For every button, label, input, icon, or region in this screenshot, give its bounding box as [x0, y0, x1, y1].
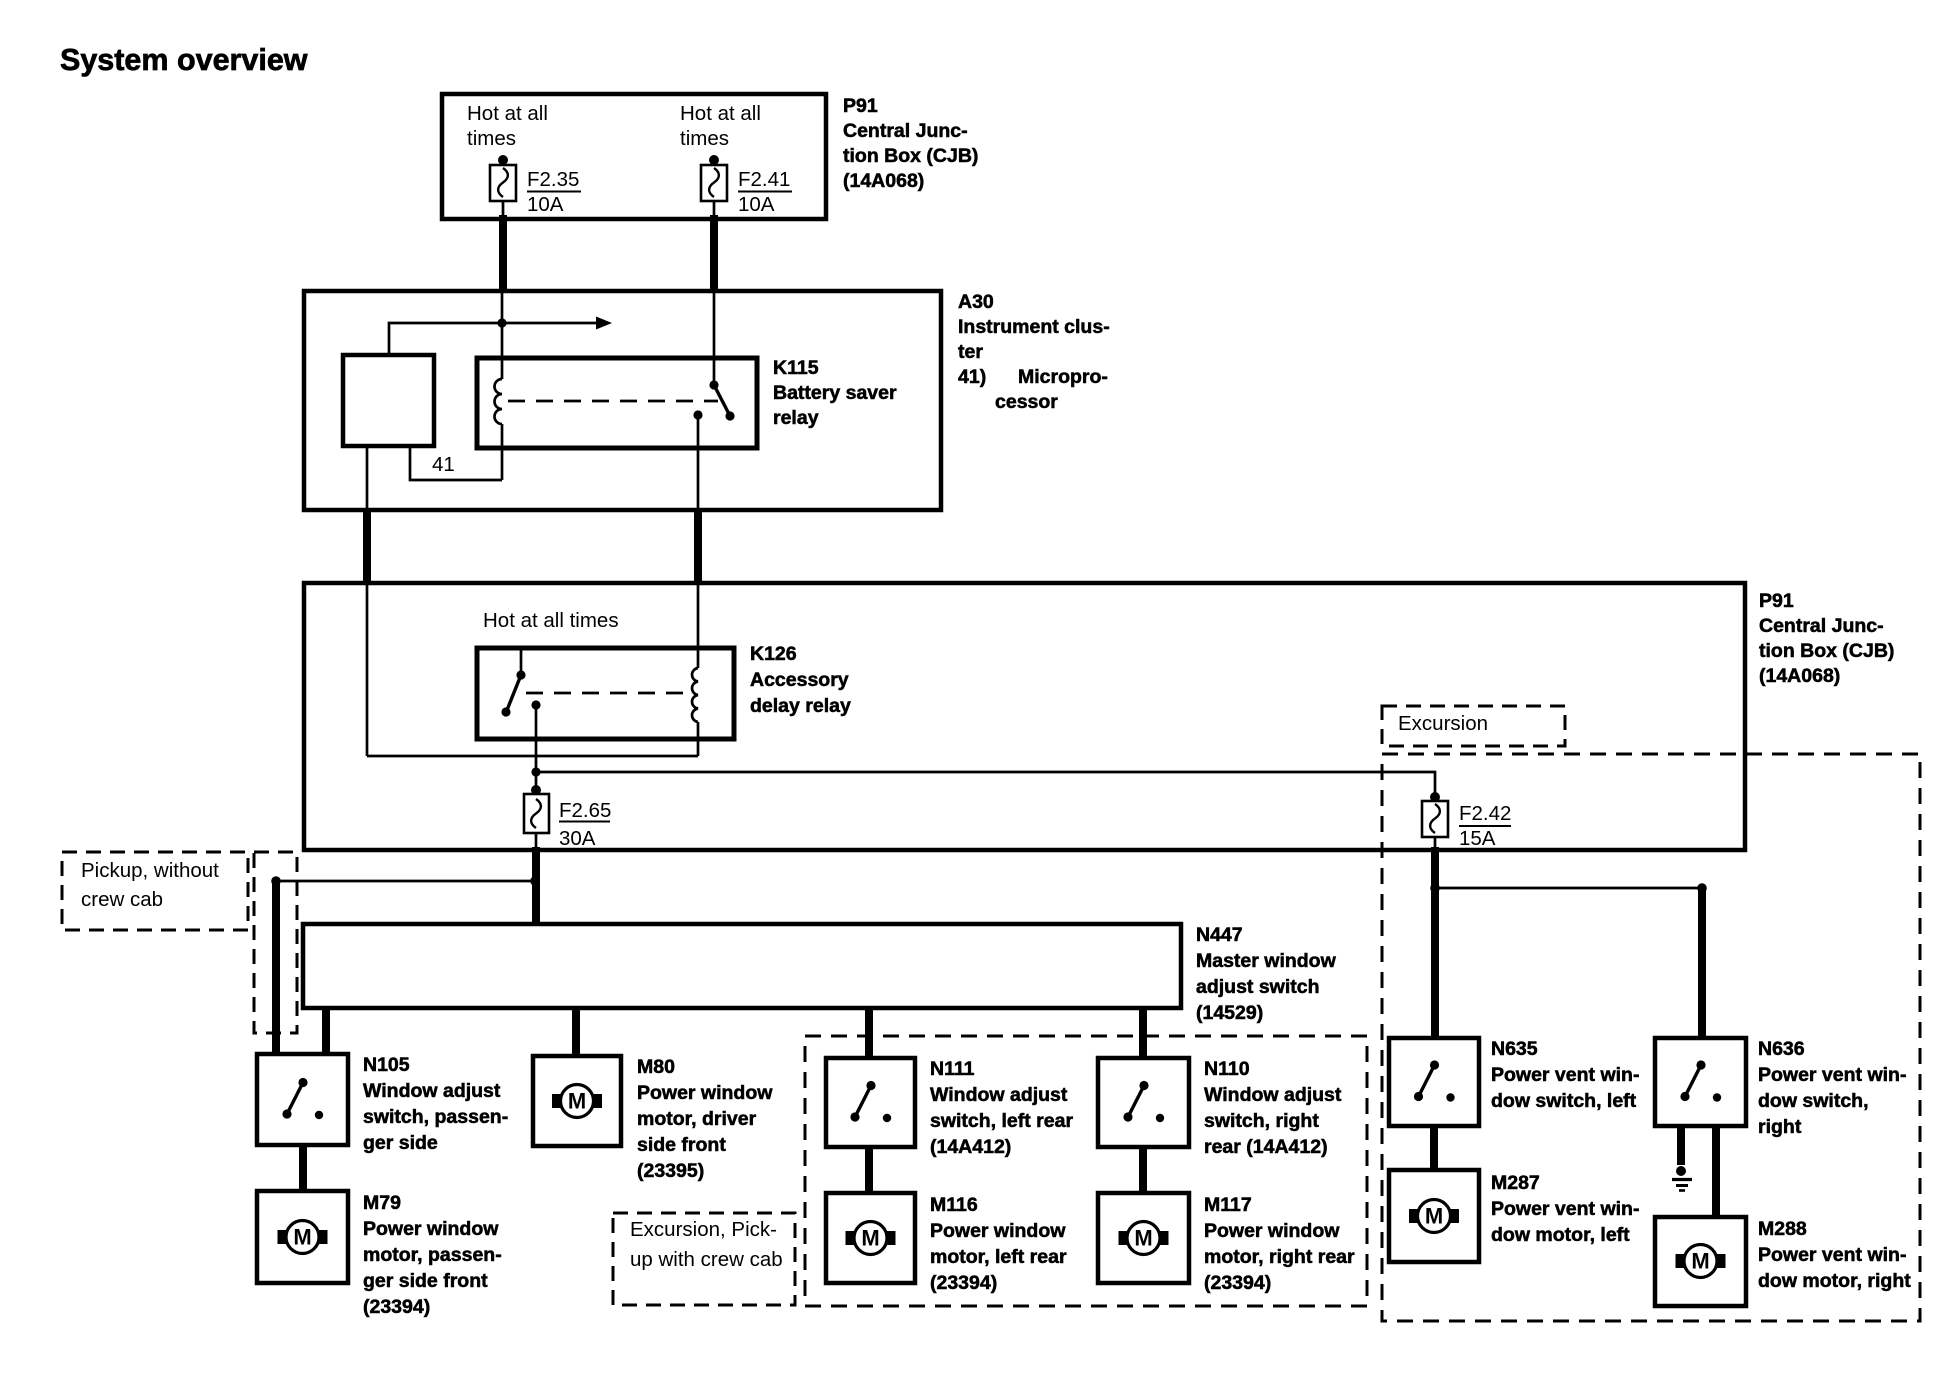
svg-text:Window adjust: Window adjust	[363, 1080, 501, 1102]
svg-text:side front: side front	[637, 1134, 726, 1156]
svg-text:(14529): (14529)	[1196, 1002, 1263, 1024]
wire micro pin41 to coil	[410, 446, 502, 480]
K126 switch	[501, 648, 540, 717]
label P91 right	[1759, 590, 1894, 687]
fuse F2.35	[490, 155, 516, 217]
svg-text:Excursion, Pick-: Excursion, Pick-	[630, 1218, 777, 1241]
P91 central junction box main	[304, 583, 1745, 850]
svg-text:Central Junc-: Central Junc-	[843, 120, 968, 142]
svg-text:N111: N111	[930, 1058, 975, 1080]
svg-text:N447: N447	[1196, 924, 1243, 946]
K115 switch	[693, 292, 734, 421]
svg-text:times: times	[467, 127, 516, 150]
svg-text:(23394): (23394)	[1204, 1272, 1271, 1294]
svg-text:motor, passen-: motor, passen-	[363, 1244, 502, 1266]
svg-text:Battery saver: Battery saver	[773, 382, 897, 404]
wire N447 to N110	[1139, 1008, 1147, 1058]
svg-text:(23394): (23394)	[930, 1272, 997, 1294]
svg-text:ger side: ger side	[363, 1132, 438, 1154]
Pickup without crew cab label box	[62, 852, 248, 930]
svg-text:41: 41	[432, 453, 455, 476]
relay K115 box	[477, 358, 757, 448]
wire N105 to M79	[299, 1145, 307, 1191]
motor M117	[1098, 1193, 1189, 1283]
svg-text:M79: M79	[363, 1192, 401, 1214]
wire N447 to N105	[322, 1008, 330, 1054]
wire K126 output to fuse F2.65	[535, 705, 538, 790]
node junction dot on arrow	[497, 318, 506, 327]
svg-text:Hot at all: Hot at all	[680, 102, 761, 125]
wire A30 to P91 right	[694, 510, 702, 585]
label N636	[1758, 1038, 1906, 1138]
text Hot at all times	[483, 609, 619, 632]
Excursion Pickup with crew cab label box	[613, 1213, 795, 1305]
svg-text:Power window: Power window	[363, 1218, 499, 1240]
svg-text:Power vent win-: Power vent win-	[1758, 1064, 1906, 1086]
svg-text:right: right	[1758, 1116, 1802, 1138]
wire junction to N636	[1698, 888, 1706, 1038]
text Hot at all times (right)	[680, 102, 761, 150]
svg-text:ger side front: ger side front	[363, 1270, 488, 1292]
svg-text:Power vent win-: Power vent win-	[1491, 1064, 1639, 1086]
label M288	[1758, 1218, 1911, 1292]
value label F2.65 30A	[559, 799, 611, 850]
svg-text:M80: M80	[637, 1056, 675, 1078]
svg-text:Excursion: Excursion	[1398, 712, 1488, 735]
switch N110	[1098, 1058, 1189, 1147]
label M80	[637, 1056, 773, 1182]
A30 instrument cluster box	[304, 291, 941, 510]
svg-text:K115: K115	[773, 357, 819, 379]
wire N447 to N111	[865, 1008, 873, 1058]
svg-text:tion Box (CJB): tion Box (CJB)	[1759, 640, 1894, 662]
wire to fuse F2.42	[536, 772, 1435, 794]
svg-text:(23395): (23395)	[637, 1160, 704, 1182]
svg-text:motor, right rear: motor, right rear	[1204, 1246, 1355, 1268]
fuse F2.42	[1422, 792, 1448, 837]
microprocessor box 41	[343, 355, 434, 446]
svg-text:System overview: System overview	[60, 43, 308, 77]
node junction to F2.42 branch	[531, 767, 540, 776]
svg-text:switch, passen-: switch, passen-	[363, 1106, 508, 1128]
svg-text:N635: N635	[1491, 1038, 1538, 1060]
svg-text:Hot at all times: Hot at all times	[483, 609, 619, 632]
fuse F2.65	[524, 785, 549, 833]
wire N110 to M117	[1139, 1147, 1147, 1193]
svg-text:M116: M116	[930, 1194, 978, 1216]
svg-text:M117: M117	[1204, 1194, 1252, 1216]
arrow wire from microprocessor	[389, 317, 612, 356]
label P91 top	[843, 95, 978, 192]
text Hot at all times (left)	[467, 102, 548, 150]
label M287	[1491, 1172, 1639, 1246]
svg-text:up with crew cab: up with crew cab	[630, 1248, 783, 1271]
wire micro to A30 bottom	[366, 446, 369, 510]
svg-text:dow switch, left: dow switch, left	[1491, 1090, 1637, 1112]
svg-text:adjust switch: adjust switch	[1196, 976, 1320, 998]
svg-text:Instrument clus-: Instrument clus-	[958, 316, 1110, 338]
motor M116	[826, 1193, 915, 1283]
svg-text:P91: P91	[1759, 590, 1794, 612]
label A30	[958, 291, 1110, 413]
svg-text:F2.41: F2.41	[738, 168, 790, 191]
N447 master window adjust switch box	[303, 924, 1181, 1008]
svg-text:ter: ter	[958, 341, 983, 363]
svg-text:relay: relay	[773, 407, 819, 429]
svg-text:switch, right: switch, right	[1204, 1110, 1319, 1132]
wire F2.35 to A30	[499, 215, 507, 292]
node junction to N636	[1430, 883, 1707, 893]
value label F2.41 10A	[738, 168, 792, 216]
wire F2.65 to N447	[535, 832, 538, 924]
label K115	[773, 357, 897, 429]
node pickup junction	[271, 876, 540, 886]
label N635	[1491, 1038, 1639, 1112]
wire N636 to M288	[1712, 1126, 1720, 1217]
svg-text:M288: M288	[1758, 1218, 1807, 1240]
P91 top Central Junction Box	[442, 94, 826, 219]
Excursion label box	[1382, 706, 1565, 746]
svg-text:10A: 10A	[527, 193, 564, 216]
K126 dashed actuation line	[526, 692, 694, 695]
motor M79	[257, 1191, 348, 1283]
fuse F2.41	[701, 155, 727, 217]
relay K126 box	[477, 648, 734, 739]
motor M287	[1389, 1170, 1479, 1262]
svg-text:K126: K126	[750, 643, 797, 665]
svg-text:crew cab: crew cab	[81, 888, 163, 911]
wire N636 to ground	[1677, 1126, 1685, 1165]
svg-text:Accessory: Accessory	[750, 669, 849, 691]
svg-text:dow motor, left: dow motor, left	[1491, 1224, 1630, 1246]
rear doors dashed region	[805, 1036, 1367, 1306]
svg-text:41): 41)	[958, 366, 986, 388]
wire F2.41 to A30	[710, 215, 718, 292]
switch N636	[1655, 1038, 1746, 1126]
svg-text:times: times	[680, 127, 729, 150]
label M117	[1204, 1194, 1355, 1294]
svg-text:15A: 15A	[1459, 827, 1496, 850]
label M116	[930, 1194, 1067, 1294]
label N111	[930, 1058, 1073, 1158]
svg-text:F2.42: F2.42	[1459, 802, 1511, 825]
svg-text:switch, left rear: switch, left rear	[930, 1110, 1073, 1132]
wire N447 to M80	[572, 1008, 580, 1056]
svg-text:(23394): (23394)	[363, 1296, 430, 1318]
svg-text:(14A068): (14A068)	[843, 170, 924, 192]
svg-text:Power window: Power window	[1204, 1220, 1340, 1242]
svg-text:cessor: cessor	[995, 391, 1058, 413]
label M79	[363, 1192, 502, 1318]
title System overview	[60, 43, 308, 77]
wire K115 switch output	[697, 415, 700, 510]
svg-text:Central Junc-: Central Junc-	[1759, 615, 1884, 637]
wire F2.42 to N635	[1434, 837, 1437, 1038]
svg-text:N636: N636	[1758, 1038, 1805, 1060]
svg-text:10A: 10A	[738, 193, 775, 216]
wire A30 to P91 left	[363, 510, 371, 585]
svg-text:(14A412): (14A412)	[930, 1136, 1011, 1158]
svg-text:motor, left rear: motor, left rear	[930, 1246, 1067, 1268]
svg-text:Power window: Power window	[637, 1082, 773, 1104]
K126 coil	[692, 668, 698, 722]
wire N111 to M116	[865, 1147, 873, 1193]
svg-text:Window adjust: Window adjust	[930, 1084, 1068, 1106]
svg-text:P91: P91	[843, 95, 878, 117]
svg-text:M287: M287	[1491, 1172, 1540, 1194]
svg-text:Master window: Master window	[1196, 950, 1337, 972]
svg-text:N110: N110	[1204, 1058, 1250, 1080]
ground	[1672, 1166, 1692, 1191]
svg-text:dow switch,: dow switch,	[1758, 1090, 1869, 1112]
svg-text:motor, driver: motor, driver	[637, 1108, 757, 1130]
svg-text:Power window: Power window	[930, 1220, 1066, 1242]
svg-text:tion Box (CJB): tion Box (CJB)	[843, 145, 978, 167]
svg-text:Window adjust: Window adjust	[1204, 1084, 1342, 1106]
pickup dashed wire box	[254, 852, 297, 1033]
svg-text:F2.65: F2.65	[559, 799, 611, 822]
motor M80	[533, 1056, 621, 1146]
svg-text:Hot at all: Hot at all	[467, 102, 548, 125]
inner feed loop wires	[367, 585, 698, 756]
K115 dashed actuation line	[508, 400, 718, 403]
value label F2.42 15A	[1459, 802, 1511, 850]
label K126	[750, 643, 851, 717]
svg-text:A30: A30	[958, 291, 994, 313]
switch N635	[1389, 1038, 1479, 1126]
wire N635 to M287	[1430, 1126, 1438, 1170]
svg-text:Pickup, without: Pickup, without	[81, 859, 219, 882]
svg-text:N105: N105	[363, 1054, 410, 1076]
label N110	[1204, 1058, 1342, 1158]
value label F2.35 10A	[527, 168, 581, 216]
svg-text:Power vent win-: Power vent win-	[1758, 1244, 1906, 1266]
switch N111	[826, 1058, 915, 1147]
motor M288	[1655, 1217, 1746, 1306]
Excursion dashed region	[1382, 754, 1920, 1321]
svg-text:Power vent win-: Power vent win-	[1491, 1198, 1639, 1220]
K115 coil	[495, 292, 503, 480]
svg-text:Micropro-: Micropro-	[1018, 366, 1108, 388]
svg-text:F2.35: F2.35	[527, 168, 579, 191]
svg-text:rear (14A412): rear (14A412)	[1204, 1136, 1328, 1158]
svg-text:30A: 30A	[559, 827, 596, 850]
label N447	[1196, 924, 1337, 1024]
pin label 41	[432, 453, 455, 476]
svg-text:delay relay: delay relay	[750, 695, 851, 717]
wire pickup to N105	[272, 881, 280, 1054]
svg-text:(14A068): (14A068)	[1759, 665, 1840, 687]
label N105	[363, 1054, 508, 1154]
svg-text:dow motor, right: dow motor, right	[1758, 1270, 1911, 1292]
switch N105	[257, 1054, 348, 1145]
